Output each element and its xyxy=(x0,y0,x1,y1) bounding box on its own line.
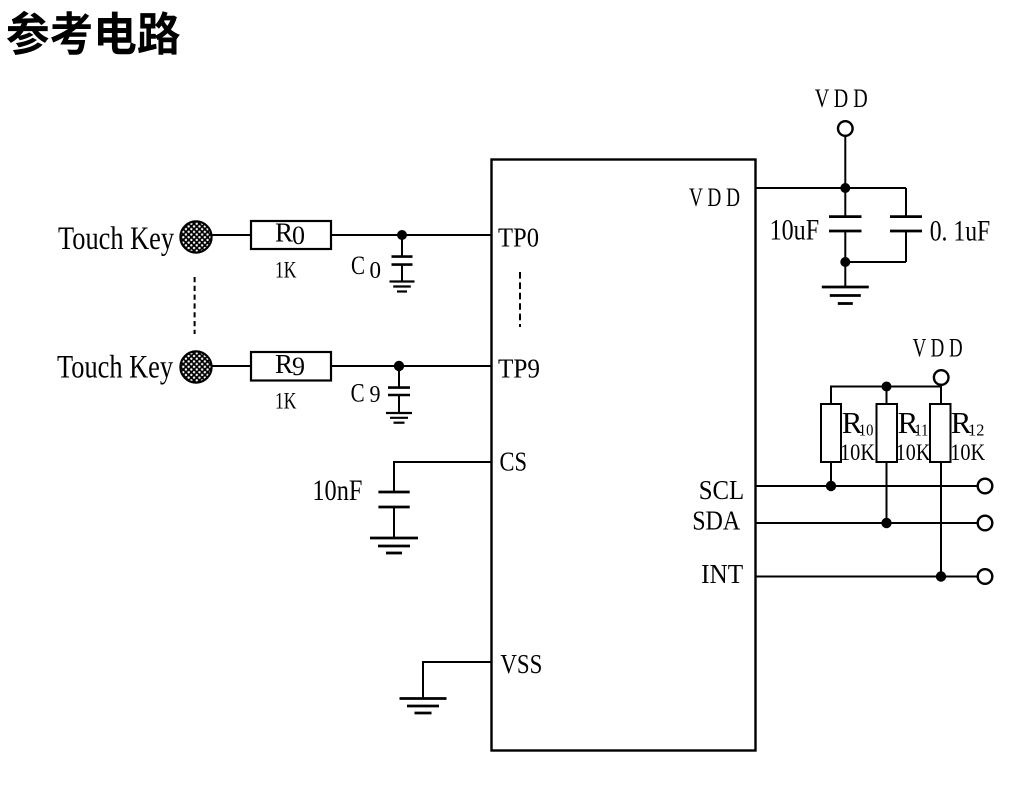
dashed continuation (TP pins) xyxy=(519,272,521,327)
wire: SCL line xyxy=(756,485,979,487)
svg-text:SCL: SCL xyxy=(699,475,745,505)
svg-text:9: 9 xyxy=(370,382,381,408)
net label VDD (supply, top) xyxy=(815,83,868,113)
value label 1K (R0) xyxy=(275,258,297,283)
IC U1 touch controller body xyxy=(492,160,756,751)
label C9 xyxy=(351,379,381,409)
node junction R11 top xyxy=(882,382,892,392)
capacitor C11 0.1uF branch xyxy=(845,188,922,262)
wire: VDD terminal to rail xyxy=(844,136,846,188)
svg-text:SDA: SDA xyxy=(692,505,740,535)
capacitor C10 10uF xyxy=(829,188,862,262)
node junction VDD rail xyxy=(840,183,850,193)
value label 10nF xyxy=(312,474,362,507)
SCL terminal xyxy=(978,479,993,494)
svg-text:0. 1uF: 0. 1uF xyxy=(930,215,991,248)
wire: INT line xyxy=(756,576,979,578)
pin label VDD xyxy=(689,182,740,212)
pin label VSS xyxy=(500,649,542,679)
svg-text:V D D: V D D xyxy=(815,83,868,113)
value label 1K (R9) xyxy=(275,389,297,414)
wire: pull-up top rail xyxy=(830,385,941,405)
svg-text:12: 12 xyxy=(968,421,984,440)
wire: junction to ground xyxy=(844,262,846,287)
pin label SCL xyxy=(699,475,745,505)
dashed continuation (keys) xyxy=(194,277,196,334)
label C0 xyxy=(351,251,381,284)
wire: key2 to R9 xyxy=(213,365,252,367)
touch pad key 2 xyxy=(180,351,211,382)
svg-text:Touch Key: Touch Key xyxy=(58,221,174,257)
value label 10uF xyxy=(770,214,820,247)
svg-text:10: 10 xyxy=(859,421,874,440)
label R11 xyxy=(898,405,929,440)
wire: CS pin to capacitor xyxy=(394,461,492,492)
title: 参考电路 (Reference Circuit) xyxy=(7,11,180,55)
svg-text:10nF: 10nF xyxy=(312,474,362,507)
label Touch Key (row 1) xyxy=(58,221,174,257)
wire: R0 to TP0 pin xyxy=(331,234,492,236)
resistor R11 xyxy=(877,404,898,462)
svg-text:10uF: 10uF xyxy=(770,214,820,247)
svg-text:1K: 1K xyxy=(275,389,297,414)
capacitor 10nF (CS) xyxy=(378,492,409,538)
resistor R12 xyxy=(930,404,951,462)
wire: VDD pin rail xyxy=(756,187,907,189)
wire: R10 to SCL xyxy=(830,462,832,486)
value label 10K (R11) xyxy=(896,440,931,465)
VDD terminal (pull-ups) xyxy=(934,370,949,385)
svg-text:V D D: V D D xyxy=(689,182,740,212)
pin label SDA xyxy=(692,505,740,535)
pin label TP0 xyxy=(498,223,539,253)
svg-text:R: R xyxy=(275,349,293,379)
capacitor C0 xyxy=(392,235,413,281)
resistor R10 xyxy=(821,404,841,462)
label Touch Key (row 2) xyxy=(57,350,173,386)
node junction at C0 xyxy=(397,230,407,240)
value label 10K (R10) xyxy=(840,440,875,465)
svg-text:C: C xyxy=(351,251,365,280)
svg-text:TP9: TP9 xyxy=(498,353,540,383)
pin label INT xyxy=(701,559,743,589)
node junction cap ground xyxy=(840,257,850,267)
svg-text:CS: CS xyxy=(500,447,528,477)
svg-text:1K: 1K xyxy=(275,258,297,283)
node junction INT/R12 xyxy=(936,571,946,581)
svg-text:0: 0 xyxy=(292,221,305,250)
svg-text:0: 0 xyxy=(370,258,382,284)
svg-text:TP0: TP0 xyxy=(498,223,539,253)
capacitor C9 xyxy=(388,366,410,413)
ground (decoupling) xyxy=(822,287,869,304)
svg-text:11: 11 xyxy=(914,421,928,440)
svg-text:10K: 10K xyxy=(896,440,931,465)
svg-text:V D D: V D D xyxy=(913,332,963,362)
node junction SDA/R11 xyxy=(881,518,891,528)
label R10 xyxy=(842,405,874,440)
resistor R0 xyxy=(251,218,331,251)
svg-text:C: C xyxy=(351,379,365,408)
SDA terminal xyxy=(978,516,993,531)
wire: R12 to INT xyxy=(940,462,942,577)
ground (C9) xyxy=(386,413,412,423)
INT terminal xyxy=(978,569,993,584)
node junction SCL/R10 xyxy=(826,481,836,491)
svg-text:9: 9 xyxy=(292,352,305,381)
value label 0.1uF xyxy=(930,215,991,248)
net label VDD (pull-ups) xyxy=(913,332,963,362)
node junction at C9 xyxy=(394,361,404,371)
svg-text:10K: 10K xyxy=(950,440,985,465)
svg-text:INT: INT xyxy=(701,559,743,589)
svg-text:Touch Key: Touch Key xyxy=(57,350,173,386)
pin label TP9 xyxy=(498,353,540,383)
label R12 xyxy=(951,405,985,440)
ground (CS cap) xyxy=(370,538,418,553)
ground (C0) xyxy=(390,282,415,292)
ground (VSS) xyxy=(400,699,447,714)
pin label CS xyxy=(500,447,528,477)
touch pad key 1 xyxy=(180,221,211,252)
wire: R11 to SDA xyxy=(886,462,888,523)
value label 10K (R12) xyxy=(950,440,985,465)
svg-text:10K: 10K xyxy=(840,440,875,465)
VDD terminal (top) xyxy=(838,121,853,136)
resistor R9 xyxy=(251,349,331,381)
wire: key1 to R0 xyxy=(213,234,252,236)
svg-text:R: R xyxy=(275,218,293,248)
wire: R9 to TP9 pin xyxy=(331,365,492,367)
wire: SDA line xyxy=(756,522,979,524)
wire: VSS pin to ground xyxy=(423,661,492,699)
svg-text:VSS: VSS xyxy=(500,649,542,679)
